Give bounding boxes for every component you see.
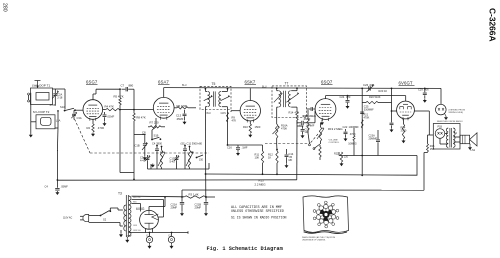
IF transformer T7 dashed box (272, 86, 307, 118)
padder capacitor C4 (156, 146, 158, 148)
svg-text:P1B: P1B (438, 125, 443, 128)
svg-text:470K: 470K (364, 116, 370, 119)
power transformer T3 core (125, 195, 127, 237)
wire riser x134 from rail (133, 89, 135, 109)
svg-text:R10: R10 (243, 125, 248, 129)
wire 6SK7 grid (231, 110, 240, 112)
IF transformer T5 dashed box (200, 86, 231, 109)
svg-text:.1MF: .1MF (242, 145, 248, 149)
svg-text:2-18: 2-18 (57, 96, 63, 100)
wire 6SA7 plate to B+ rail (163, 88, 165, 98)
svg-text:UNDERSIDE OF CHASSIS.: UNDERSIDE OF CHASSIS. (302, 238, 326, 241)
svg-text:.05MF: .05MF (303, 117, 311, 121)
svg-text:R22: R22 (334, 152, 339, 155)
svg-text:150: 150 (199, 158, 204, 161)
rectifier plate wires (132, 199, 164, 201)
svg-text:C4: C4 (45, 185, 49, 189)
svg-text:C29 .006: C29 .006 (418, 88, 429, 92)
svg-text:T7: T7 (285, 82, 289, 86)
svg-text:R14: R14 (289, 110, 294, 114)
junction dots T5 (205, 88, 207, 90)
T3 primary winding (124, 205, 126, 231)
svg-text:C11 3900+80: C11 3900+80 (187, 142, 203, 146)
bus C bottom (182, 189, 424, 191)
svg-text:10MEG: 10MEG (348, 142, 357, 145)
B+ filter line (132, 195, 185, 198)
left AVC capacitor C4 .05MF (57, 179, 59, 181)
antenna terminals (28, 93, 30, 95)
svg-text:6SA7: 6SA7 (158, 80, 169, 85)
svg-text:.05MF: .05MF (61, 185, 69, 189)
tube socket diagram (330, 216, 338, 218)
resistor R6 4700 (174, 107, 177, 109)
svg-text:6V6GT: 6V6GT (399, 81, 413, 86)
oscillator bottom wire (151, 168, 209, 170)
drawing number C-3266A (rotated, top-right margin) (488, 8, 498, 42)
resistor R4 47K (103, 109, 106, 111)
svg-text:6SG7: 6SG7 (86, 79, 98, 84)
T5 primary trimmer arrow (204, 96, 213, 101)
svg-text:S1A: S1A (60, 105, 65, 109)
resistor R8 47K (133, 110, 135, 114)
T5 core (212, 91, 214, 106)
svg-text:UNLESS OTHERWISE SPECIFIED: UNLESS OTHERWISE SPECIFIED (231, 210, 284, 214)
T7 core (283, 91, 285, 107)
rectifier tube 6X5G (140, 210, 159, 229)
B+ bus A (339, 155, 417, 157)
svg-text:S2: S2 (103, 217, 107, 221)
capacitor C28 (6V6 grid return) (391, 103, 393, 123)
svg-text:GRN: GRN (221, 112, 227, 115)
band switch S1A (57, 110, 59, 112)
T5 primary coil (204, 89, 206, 92)
antenna symbol (35, 80, 41, 82)
output transformer T4 (446, 128, 448, 147)
wire T4 connections (445, 133, 448, 135)
junction filter node (205, 196, 207, 198)
trimmer capacitor C3A (73, 110, 75, 113)
T7 primary trimmer arrow (274, 93, 283, 102)
svg-text:C-3266A: C-3266A (488, 8, 498, 42)
svg-text:BLK: BLK (207, 112, 212, 115)
B+ top rail (164, 87, 441, 90)
svg-text:M LOOP T2: M LOOP T2 (33, 110, 50, 114)
tube 6SQ7 (315, 99, 336, 120)
svg-text:LS1: LS1 (471, 148, 476, 152)
wire osc to riser (208, 163, 210, 169)
T3 secondary winding (129, 196, 131, 236)
wire 6SK7 plate to rail (249, 88, 251, 100)
wire switch to 6SG7 grid (75, 109, 83, 111)
svg-text:BLU: BLU (262, 86, 267, 89)
svg-text:2.2 MEG: 2.2 MEG (255, 183, 266, 187)
svg-text:R3 1.4K: R3 1.4K (189, 192, 199, 196)
wire T7 primary down (volume control) (276, 109, 278, 124)
riser bus A to bus B (416, 156, 418, 176)
loop antenna T2 box (36, 115, 55, 129)
svg-text:100: 100 (305, 131, 310, 134)
wire 6V6 plate to output (414, 110, 429, 112)
switch S1C contacts (309, 144, 311, 146)
svg-text:R2: R2 (87, 126, 91, 130)
svg-text:1K: 1K (268, 155, 271, 159)
svg-text:R20 510K: R20 510K (369, 95, 381, 99)
svg-text:220: 220 (344, 155, 349, 158)
svg-text:6SQ7: 6SQ7 (321, 79, 333, 84)
gang dashed line horizontal right (265, 143, 309, 145)
svg-text:C16: C16 (227, 145, 232, 149)
svg-text:T5: T5 (212, 82, 216, 86)
svg-text:R7 220: R7 220 (150, 120, 159, 124)
bus C left corner (181, 190, 183, 197)
T5 secondary trimmer arrow (221, 96, 230, 101)
svg-text:C22: C22 (343, 125, 348, 129)
socket diagram torn-edge box (303, 196, 349, 232)
AVC bus (line 1) (57, 179, 296, 181)
heater winding line (129, 232, 188, 234)
page number 280 (rotated, top-left margin) (2, 3, 8, 12)
svg-text:C1B: C1B (135, 143, 140, 147)
speaker ground (469, 144, 471, 146)
svg-text:WIRING SIDE): WIRING SIDE) (449, 112, 464, 114)
tube 6SK7 (240, 101, 260, 121)
speaker LS1 (460, 135, 470, 144)
tube 6SG7 (83, 100, 103, 120)
loop antenna T1 box (31, 88, 53, 105)
speaker plug P1 (436, 104, 447, 115)
wire 6SG7 cathode (92, 119, 94, 124)
gang dashed line horizontal left (90, 152, 209, 154)
resistor R2 4700 (cathode) (92, 124, 94, 132)
resistor R3 1.4K (184, 196, 206, 198)
svg-text:MF: MF (289, 158, 293, 162)
svg-text:GRN: GRN (133, 225, 138, 227)
capacitor C6 .01MF (6SG7 cathode bypass) (104, 112, 106, 114)
resistor R10 1500 (cathode) (249, 121, 251, 124)
svg-text:20MF: 20MF (171, 205, 178, 209)
svg-text:.004MF: .004MF (306, 124, 315, 128)
AF coupling rail (326, 95, 406, 97)
svg-text:GRN-YEL: GRN-YEL (133, 230, 141, 232)
ground (left bus) (30, 134, 32, 135)
wire 6V6 grid from rail (405, 96, 407, 102)
trimmer capacitor C2A (54, 89, 56, 93)
svg-text:C8: C8 (142, 130, 146, 134)
gang dashed diagonal right (310, 134, 318, 144)
svg-text:C3A: C3A (77, 116, 82, 120)
T3 ground (126, 237, 128, 239)
svg-text:470K: 470K (350, 133, 356, 136)
svg-text:5-45: 5-45 (170, 159, 176, 163)
capacitor C7 in plate rail (119, 88, 121, 90)
svg-text:T3: T3 (118, 192, 122, 196)
power switch S2 (100, 215, 102, 217)
wire T1 left to ground bus (28, 95, 30, 100)
svg-text:110V AC: 110V AC (63, 217, 73, 220)
svg-text:20MF: 20MF (195, 205, 202, 209)
svg-text:C7: C7 (121, 84, 125, 88)
svg-text:470K: 470K (50, 103, 56, 107)
oscillator coil L2B (189, 147, 191, 150)
svg-text:6SK7: 6SK7 (245, 80, 256, 85)
svg-text:Fig. 1 Schematic Diagram: Fig. 1 Schematic Diagram (207, 246, 283, 252)
wire T1 top to switch (53, 88, 66, 90)
svg-text:R23 1K: R23 1K (379, 89, 388, 93)
oscillator coil L2A (161, 147, 163, 150)
wire 6SQ7 plate to AF rail (325, 96, 327, 99)
svg-text:280: 280 (2, 3, 8, 12)
rectifier heater stubs (145, 229, 147, 233)
switch S1 right contact (196, 157, 198, 159)
svg-text:47K: 47K (232, 119, 237, 123)
svg-text:REMOVED FROM RADIO: REMOVED FROM RADIO (437, 120, 463, 123)
wire 6SG7 plate to top rail (92, 94, 94, 100)
T7 secondary coil (296, 88, 298, 91)
padder capacitor C11 (184, 146, 186, 148)
svg-text:LW LOOP T1: LW LOOP T1 (32, 84, 51, 88)
svg-text:.05MF: .05MF (176, 117, 184, 121)
speaker assembly box (433, 124, 460, 150)
T5 secondary coil (227, 89, 229, 92)
svg-text:S1 IS SHOWN IN RADIO POSITION: S1 IS SHOWN IN RADIO POSITION (231, 216, 287, 220)
T7 primary coil (276, 88, 278, 91)
svg-text:470K: 470K (281, 126, 287, 130)
oscillator bottom links (156, 154, 158, 170)
svg-text:C24: C24 (340, 95, 345, 99)
T7 secondary trimmer arrow (286, 93, 298, 102)
AC plug (83, 215, 89, 222)
svg-text:R19 2 MEG: R19 2 MEG (328, 127, 343, 131)
wire T5 secondary down (227, 110, 229, 146)
svg-text:.01MF: .01MF (107, 115, 115, 119)
tube 6SA7 (153, 97, 174, 118)
gang dashed line diagonal left (75, 119, 91, 153)
riser x362 to bus B (361, 156, 363, 176)
AVC riser from R14 (296, 120, 298, 180)
svg-text:R8 47K: R8 47K (136, 115, 145, 119)
plug P1B (435, 129, 445, 139)
svg-text:RED-YEL: RED-YEL (133, 197, 141, 199)
svg-text:880: 880 (129, 84, 134, 88)
riser bus C right (423, 153, 425, 191)
svg-text:WHEN VIEWED (AS THE C? A) FROM: WHEN VIEWED (AS THE C? A) FROM (302, 236, 335, 239)
svg-text:CONTROL: CONTROL (329, 142, 340, 144)
B+ bus (line 2) (206, 174, 418, 175)
wire T2 to band switch (31, 121, 36, 123)
svg-text:1500: 1500 (255, 125, 261, 129)
AC wires (89, 215, 100, 217)
junction dots T7 (276, 87, 278, 89)
svg-text:15K: 15K (430, 148, 435, 151)
svg-text:10K: 10K (255, 155, 260, 159)
riser to detector rail (361, 88, 363, 155)
6V6 return cluster (338, 152, 340, 156)
wire S1A to AVC bus (56, 128, 59, 151)
svg-text:S1B: S1B (154, 134, 159, 138)
wire R4 to 6SA7 grid (134, 109, 153, 111)
rectifier cathode to filter (148, 207, 150, 211)
svg-text:BLU: BLU (182, 84, 187, 87)
svg-text:R5 4.7K: R5 4.7K (114, 95, 124, 99)
wire T5 primary down to B+ bus and filter (204, 110, 206, 198)
wire 6SQ7 grid cap (313, 108, 315, 110)
svg-text:330MMF: 330MMF (364, 109, 374, 112)
resistor R7 220 (cathode) (155, 118, 157, 121)
svg-text:4700: 4700 (98, 126, 105, 130)
wire screen return (119, 110, 121, 173)
ground (6SG7 cathode) (92, 133, 94, 134)
svg-text:R4 47K: R4 47K (105, 105, 114, 109)
tube 6V6GT (397, 101, 415, 119)
6SQ7 cathode ground (321, 120, 323, 122)
